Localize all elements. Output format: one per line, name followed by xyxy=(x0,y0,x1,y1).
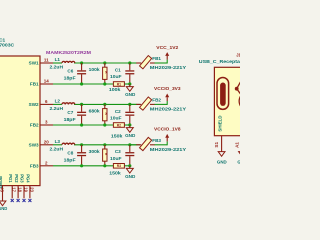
pin name PGND inside IC1 xyxy=(0,176,3,188)
ground GND (channel 3) xyxy=(125,166,136,179)
junction SW1/C6 xyxy=(80,61,83,64)
svg-text:17: 17 xyxy=(12,187,17,192)
svg-text:GND: GND xyxy=(125,133,136,138)
svg-text:SHIELD: SHIELD xyxy=(217,115,222,131)
svg-text:10uF: 10uF xyxy=(110,115,122,120)
capacitor C3 10uF xyxy=(110,145,134,166)
svg-text:MH2029-221Y: MH2029-221Y xyxy=(150,65,187,71)
svg-text:C7: C7 xyxy=(67,110,73,115)
svg-text:L2: L2 xyxy=(55,99,61,104)
svg-text:C1: C1 xyxy=(115,67,121,72)
svg-text:10uF: 10uF xyxy=(110,156,122,161)
pin SW3 (pin 20) of IC1 xyxy=(29,139,53,147)
ground GND (channel 2) xyxy=(125,125,136,138)
ground GND (shield) xyxy=(217,152,227,165)
junction FB2/R divider xyxy=(103,123,106,126)
svg-text:680k: 680k xyxy=(89,109,100,114)
resistor divider-top 680k (vertical) xyxy=(89,104,108,125)
value 7003C xyxy=(0,42,15,48)
value USB_C_Receptacle xyxy=(199,59,243,65)
wire FB2 to VCCIO_3V3 xyxy=(155,101,168,105)
svg-text:PG2: PG2 xyxy=(14,174,19,183)
inductor L3 2.2uH xyxy=(50,139,75,151)
svg-text:PG1: PG1 xyxy=(8,174,13,183)
pin SW2 (pin 6) of IC1 xyxy=(29,99,53,107)
junction SW1/R divider top xyxy=(103,61,106,64)
pin PG1 (pin 17) of IC1 xyxy=(8,174,17,198)
svg-text:18pF: 18pF xyxy=(64,117,76,122)
connector J1 USB_C_Receptacle body xyxy=(214,67,252,135)
reference IC1 xyxy=(0,38,6,44)
svg-text:14: 14 xyxy=(44,79,50,84)
svg-text:150k: 150k xyxy=(111,134,123,139)
capacitor C2 10uF xyxy=(110,104,134,125)
junction SW2/C2 xyxy=(128,103,131,106)
svg-text:R3: R3 xyxy=(117,164,121,168)
svg-text:FB2: FB2 xyxy=(152,98,161,103)
svg-text:FB1: FB1 xyxy=(30,82,39,87)
no-connect X (pin 19) xyxy=(23,199,26,202)
field MAMK2520T2R2M of L1 xyxy=(46,50,91,56)
ground GND (channel 1) xyxy=(125,84,136,97)
svg-text:11: 11 xyxy=(44,58,49,63)
junction SW2/R divider top xyxy=(103,103,106,106)
svg-text:2.2uH: 2.2uH xyxy=(50,106,64,111)
svg-text:FB3: FB3 xyxy=(30,164,39,169)
capacitor C8 18pF xyxy=(64,145,87,166)
svg-text:PGND: PGND xyxy=(0,176,3,188)
wire FB1 row xyxy=(53,83,130,85)
svg-text:C6: C6 xyxy=(67,69,73,74)
ferrite-bead FB3 MH2029-221Y xyxy=(136,137,187,153)
svg-text:2.2uH: 2.2uH xyxy=(50,146,64,151)
svg-text:150k: 150k xyxy=(109,170,121,175)
junction FB3/C8 xyxy=(80,164,83,167)
svg-text:GND: GND xyxy=(237,160,240,165)
junction SW2/C7 xyxy=(80,103,83,106)
ground GND (A1/B12) xyxy=(237,152,247,165)
svg-text:FB2: FB2 xyxy=(30,123,39,128)
svg-text:18pF: 18pF xyxy=(64,157,76,162)
junction SW3/C3 xyxy=(128,143,131,146)
pin FB1 (pin 14) of IC1 xyxy=(30,79,53,87)
svg-text:300k: 300k xyxy=(89,149,100,154)
junction FB3/R divider xyxy=(103,164,106,167)
svg-text:L1: L1 xyxy=(55,57,61,62)
wire C2 to FB2 xyxy=(130,103,137,105)
svg-text:L3: L3 xyxy=(55,139,61,144)
svg-text:C3: C3 xyxy=(115,149,121,154)
capacitor C6 18pF xyxy=(64,63,87,84)
svg-text:VCCIO_3V3: VCCIO_3V3 xyxy=(154,86,181,92)
svg-text:GND: GND xyxy=(125,174,136,179)
pin SHIELD (S1) of J1 xyxy=(214,115,222,151)
junction SW3/C8 xyxy=(80,143,83,146)
reference J1 xyxy=(236,52,241,57)
svg-text:PG4: PG4 xyxy=(26,174,31,183)
svg-text:R2: R2 xyxy=(117,123,121,127)
junction FB1/C6 xyxy=(80,82,83,85)
junction FB2/C7 xyxy=(80,123,83,126)
svg-text:S1: S1 xyxy=(214,142,219,148)
svg-text:GND: GND xyxy=(125,92,136,97)
ferrite-bead FB2 MH2029-221Y xyxy=(136,97,187,113)
pin PG4 (pin 23) of IC1 xyxy=(26,174,35,198)
power symbol VCCIO_1V8 xyxy=(154,127,181,142)
svg-text:19: 19 xyxy=(24,187,29,192)
pin GND (A1/B12) of J1 xyxy=(234,136,242,152)
no-connect X (pin 17) xyxy=(11,199,14,202)
inductor L2 2.2uH xyxy=(50,99,75,111)
svg-text:MH2029-221Y: MH2029-221Y xyxy=(150,147,187,153)
svg-text:GND: GND xyxy=(217,160,227,165)
svg-text:SW2: SW2 xyxy=(29,102,39,107)
svg-text:FB1: FB1 xyxy=(152,56,161,61)
resistor divider-top 100k (vertical) xyxy=(89,63,108,84)
svg-text:20: 20 xyxy=(44,139,50,144)
wire FB1 to VCC_1V2 xyxy=(155,60,168,64)
svg-text:VCC_1V2: VCC_1V2 xyxy=(156,45,178,51)
power symbol VCCIO_3V3 xyxy=(154,86,181,101)
svg-text:C2: C2 xyxy=(115,109,121,114)
inductor L1 2.2uH xyxy=(50,57,75,69)
junction SW3/R divider top xyxy=(103,143,106,146)
resistor R3 150k (horizontal) xyxy=(109,164,124,176)
pin FB3 (pin 2) of IC1 xyxy=(30,160,53,168)
svg-text:MAMK2520T2R2M: MAMK2520T2R2M xyxy=(46,50,91,56)
junction FB1/R divider xyxy=(103,82,106,85)
junction C3/GND node xyxy=(128,164,131,167)
svg-text:18: 18 xyxy=(18,187,23,192)
USB-C plug pictogram xyxy=(217,78,229,110)
ferrite-bead FB1 MH2029-221Y xyxy=(136,56,187,72)
wire FB2 row xyxy=(53,124,130,126)
svg-text:MH2029-221Y: MH2029-221Y xyxy=(150,107,187,113)
resistor divider-top 300k (vertical) xyxy=(89,145,108,166)
power symbol VCC_1V2 xyxy=(156,45,178,60)
svg-text:VCCIO_1V8: VCCIO_1V8 xyxy=(154,127,181,133)
svg-text:FB3: FB3 xyxy=(152,138,161,143)
regulator IC1 body xyxy=(0,56,40,186)
no-connect X (pin 23) xyxy=(28,199,31,202)
resistor R2 150k (horizontal) xyxy=(111,123,125,139)
capacitor C1 10uF xyxy=(110,63,134,84)
svg-text:10uF: 10uF xyxy=(110,74,122,79)
pin PG3 (pin 19) of IC1 xyxy=(20,174,29,198)
junction C1/GND node xyxy=(128,82,131,85)
svg-text:C8: C8 xyxy=(67,150,73,155)
svg-text:SW3: SW3 xyxy=(29,143,39,148)
pin SW1 (pin 11) of IC1 xyxy=(29,58,53,66)
wire SW1 row xyxy=(53,62,140,64)
ground GND (IC1) xyxy=(0,201,7,211)
wire C1 to FB1 xyxy=(130,62,137,64)
svg-text:100k: 100k xyxy=(89,67,100,72)
svg-text:SW1: SW1 xyxy=(29,61,39,66)
no-connect X (pin 18) xyxy=(17,199,20,202)
wire C3 to FB3 xyxy=(130,144,137,146)
svg-text:A1: A1 xyxy=(234,142,239,148)
junction SW1/C1 xyxy=(128,61,131,64)
svg-text:100k: 100k xyxy=(109,87,121,92)
wire SW2 row xyxy=(53,103,140,105)
junction C2/GND node xyxy=(128,123,131,126)
svg-text:USB_C_Receptac: USB_C_Receptac xyxy=(199,59,240,65)
svg-text:18pF: 18pF xyxy=(64,76,76,81)
capacitor C7 18pF xyxy=(64,104,87,125)
pin PG2 (pin 18) of IC1 xyxy=(14,174,23,198)
svg-text:GND: GND xyxy=(0,206,7,211)
svg-text:R1: R1 xyxy=(117,82,121,86)
USB trident logo xyxy=(235,79,243,107)
svg-text:PG3: PG3 xyxy=(20,174,25,183)
svg-text:J1: J1 xyxy=(236,52,240,57)
wire SW3 row xyxy=(53,144,140,146)
wire FB3 to VCCIO_1V8 xyxy=(155,141,168,145)
resistor R1 100k (horizontal) xyxy=(109,82,125,92)
svg-text:7003C: 7003C xyxy=(0,42,15,48)
svg-text:2.2uH: 2.2uH xyxy=(50,65,64,70)
pin FB2 (pin 3) of IC1 xyxy=(30,120,53,128)
wire FB3 row xyxy=(53,165,130,167)
svg-text:23: 23 xyxy=(29,187,34,192)
pin PGND of IC1 (to ground) xyxy=(0,186,4,201)
